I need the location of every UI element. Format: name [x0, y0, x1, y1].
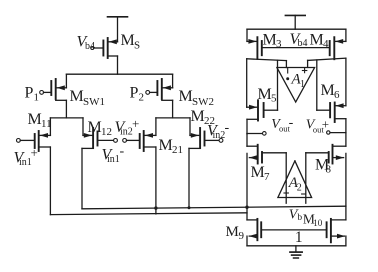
- svg-text:3: 3: [276, 38, 282, 50]
- svg-text:1: 1: [300, 79, 305, 90]
- svg-text:2: 2: [297, 183, 302, 194]
- svg-text:M: M: [263, 32, 277, 49]
- svg-text:S: S: [134, 40, 140, 52]
- svg-text:-: -: [289, 116, 294, 131]
- svg-text:+: +: [322, 117, 329, 132]
- svg-text:9: 9: [239, 230, 245, 242]
- svg-text:M: M: [179, 88, 193, 105]
- svg-text:M: M: [88, 119, 102, 136]
- svg-text:8: 8: [326, 164, 332, 176]
- svg-text:M: M: [258, 86, 272, 103]
- svg-text:-: -: [225, 121, 230, 136]
- svg-text:11: 11: [41, 118, 52, 130]
- svg-text:in1: in1: [107, 154, 120, 165]
- svg-text:M: M: [310, 32, 324, 49]
- svg-text:+: +: [31, 145, 38, 160]
- svg-text:5: 5: [271, 93, 277, 105]
- svg-text:2: 2: [139, 92, 145, 104]
- svg-text:M: M: [226, 224, 239, 240]
- svg-text:M: M: [70, 88, 84, 105]
- svg-text:21: 21: [172, 144, 183, 156]
- svg-text:M: M: [28, 111, 42, 128]
- svg-text:M: M: [191, 108, 205, 125]
- svg-text:4: 4: [323, 38, 329, 50]
- svg-text:+: +: [132, 116, 139, 131]
- svg-text:-: -: [120, 144, 125, 159]
- svg-text:1: 1: [34, 92, 40, 104]
- svg-text:10: 10: [313, 218, 323, 228]
- svg-text:M: M: [121, 32, 135, 49]
- svg-text:SW1: SW1: [83, 96, 105, 108]
- svg-text:6: 6: [334, 89, 340, 101]
- svg-text:12: 12: [101, 126, 112, 138]
- svg-text:b: b: [297, 213, 302, 223]
- svg-text:M: M: [159, 137, 173, 154]
- svg-text:7: 7: [264, 171, 270, 183]
- svg-text:1: 1: [295, 229, 303, 246]
- svg-text:M: M: [251, 164, 265, 181]
- svg-text:b4: b4: [298, 38, 308, 49]
- svg-text:in2: in2: [120, 127, 133, 138]
- svg-text:SW2: SW2: [192, 96, 214, 108]
- svg-text:M: M: [321, 82, 335, 99]
- svg-text:b4: b4: [85, 41, 95, 52]
- svg-text:P: P: [130, 85, 139, 102]
- svg-text:P: P: [25, 85, 34, 102]
- svg-text:in2: in2: [213, 130, 226, 141]
